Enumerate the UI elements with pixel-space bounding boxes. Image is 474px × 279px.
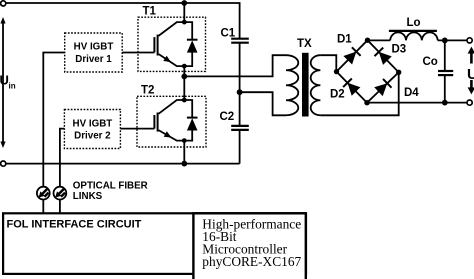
svg-text:Driver 1: Driver 1 xyxy=(75,54,112,65)
svg-text:D4: D4 xyxy=(404,87,419,99)
svg-text:HV IGBT: HV IGBT xyxy=(74,42,114,53)
svg-text:T2: T2 xyxy=(141,85,154,97)
svg-text:D1: D1 xyxy=(337,34,352,46)
svg-text:T1: T1 xyxy=(143,6,157,18)
svg-text:C2: C2 xyxy=(220,111,235,123)
svg-text:C1: C1 xyxy=(221,27,236,39)
svg-text:in: in xyxy=(9,82,16,91)
svg-text:phyCORE-XC167: phyCORE-XC167 xyxy=(202,254,301,269)
svg-text:OPTICAL FIBER: OPTICAL FIBER xyxy=(73,180,148,191)
svg-text:D3: D3 xyxy=(392,44,407,56)
svg-text:D2: D2 xyxy=(330,89,345,101)
svg-text:LINKS: LINKS xyxy=(73,191,103,202)
svg-text:HV IGBT: HV IGBT xyxy=(73,118,113,129)
svg-text:Co: Co xyxy=(423,56,438,68)
svg-text:TX: TX xyxy=(297,38,312,50)
svg-text:Lo: Lo xyxy=(407,17,421,29)
svg-text:FOL INTERFACE CIRCUIT: FOL INTERFACE CIRCUIT xyxy=(7,219,142,231)
svg-text:Driver 2: Driver 2 xyxy=(74,131,111,142)
